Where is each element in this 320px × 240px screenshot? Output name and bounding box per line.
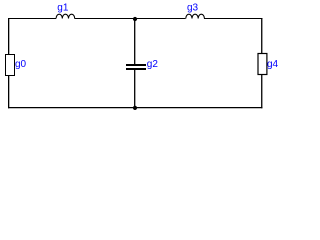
svg-text:g0: g0 xyxy=(15,59,27,70)
svg-text:g1: g1 xyxy=(57,2,69,13)
wire left upper vertical segment xyxy=(8,18,10,55)
inductor g3 xyxy=(186,14,205,18)
node junction dot bottom xyxy=(133,106,137,110)
svg-text:g3: g3 xyxy=(187,2,199,13)
svg-text:g4: g4 xyxy=(267,59,279,70)
wire top-middle segment xyxy=(75,18,186,20)
wire shunt lower segment xyxy=(134,70,136,108)
resistor g0 xyxy=(6,55,15,76)
svg-text:g2: g2 xyxy=(147,59,159,70)
inductor g1 xyxy=(56,14,75,18)
resistor g4 xyxy=(258,54,267,75)
wire left lower vertical segment xyxy=(8,76,10,109)
capacitor g2 plate bottom xyxy=(126,68,146,70)
wire right upper vertical segment xyxy=(261,18,263,54)
wire bottom segment xyxy=(8,107,262,109)
wire right lower vertical segment xyxy=(261,75,263,109)
wire top-left horizontal segment xyxy=(8,18,56,20)
capacitor g2 plate top xyxy=(126,64,146,66)
wire top-right horizontal segment xyxy=(204,18,262,20)
node junction dot top xyxy=(133,17,137,21)
wire shunt upper segment xyxy=(134,18,136,64)
